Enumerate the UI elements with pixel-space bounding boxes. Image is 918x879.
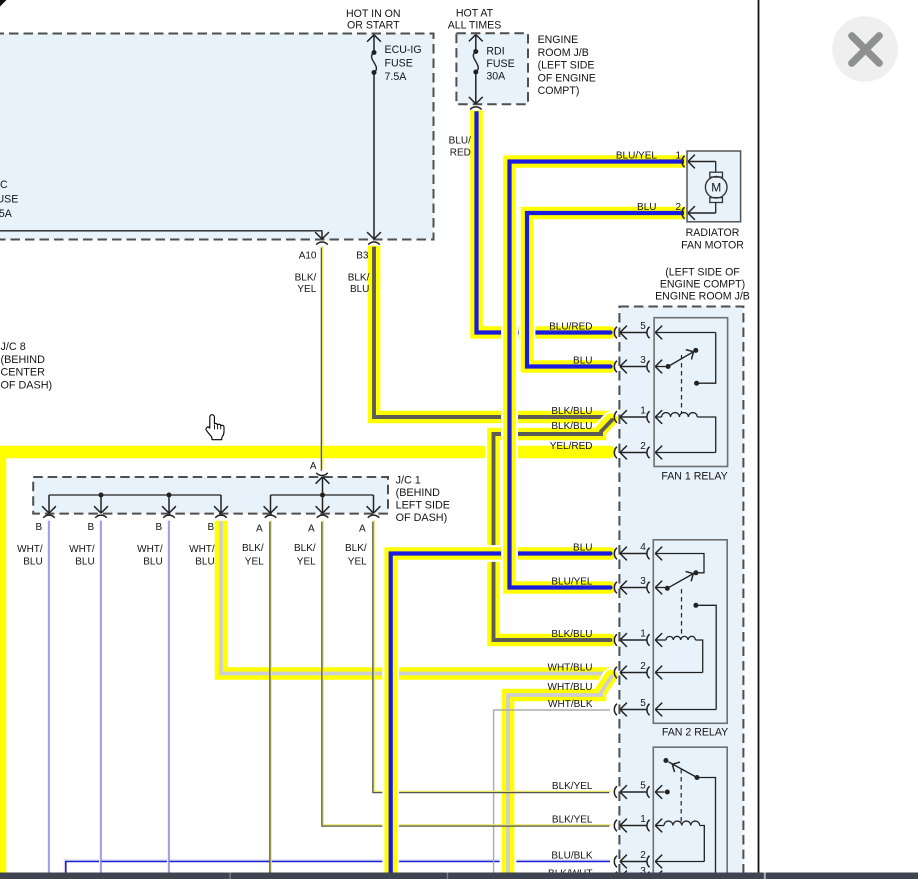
svg-text:B: B (208, 522, 215, 533)
svg-text:J/C 1: J/C 1 (396, 474, 421, 486)
svg-text:WHT/BLU: WHT/BLU (548, 682, 593, 693)
svg-text:FUSE: FUSE (0, 194, 18, 206)
svg-text:WHT/: WHT/ (189, 544, 215, 555)
svg-text:ENGINE COMPT): ENGINE COMPT) (660, 279, 745, 291)
svg-text:OF ENGINE: OF ENGINE (538, 72, 596, 84)
svg-text:(BEHIND: (BEHIND (1, 354, 46, 366)
svg-text:B: B (156, 522, 163, 533)
svg-text:BLU: BLU (573, 542, 592, 553)
svg-text:J/C 8: J/C 8 (1, 341, 26, 353)
svg-text:YEL: YEL (297, 284, 316, 295)
svg-text:OF DASH): OF DASH) (1, 379, 53, 391)
svg-text:7.5A: 7.5A (0, 208, 13, 220)
svg-text:A10: A10 (299, 251, 317, 262)
svg-text:(LEFT SIDE: (LEFT SIDE (538, 60, 595, 72)
svg-text:3: 3 (640, 355, 646, 366)
svg-text:5: 5 (640, 781, 646, 792)
svg-text:2: 2 (640, 661, 646, 672)
svg-text:1: 1 (640, 814, 646, 825)
svg-text:YEL: YEL (297, 557, 316, 568)
svg-text:YEL: YEL (245, 557, 264, 568)
svg-text:BLU/YEL: BLU/YEL (551, 576, 593, 587)
svg-text:BLU: BLU (75, 557, 94, 568)
svg-text:1: 1 (640, 629, 646, 640)
svg-text:WHT/BLK: WHT/BLK (548, 699, 593, 710)
svg-text:B: B (36, 522, 43, 533)
svg-text:BLU: BLU (143, 557, 162, 568)
svg-text:FUSE: FUSE (385, 58, 413, 70)
svg-text:BLU/: BLU/ (449, 135, 471, 146)
svg-text:WHT/BLU: WHT/BLU (548, 662, 593, 673)
svg-text:BLK/: BLK/ (295, 273, 317, 284)
svg-text:FAN 1 RELAY: FAN 1 RELAY (661, 471, 727, 483)
svg-text:BLU/BLK: BLU/BLK (551, 850, 592, 861)
svg-text:BLK/YEL: BLK/YEL (552, 814, 593, 825)
svg-text:2: 2 (640, 850, 646, 861)
svg-text:A: A (359, 524, 366, 535)
svg-text:BLK/BLU: BLK/BLU (551, 421, 592, 432)
svg-text:LEFT SIDE: LEFT SIDE (396, 499, 450, 511)
svg-text:YEL/RED: YEL/RED (550, 441, 593, 452)
svg-text:A/C: A/C (0, 179, 8, 191)
svg-text:BLK/YEL: BLK/YEL (552, 781, 593, 792)
svg-text:BLU: BLU (350, 284, 369, 295)
svg-text:B3: B3 (356, 251, 369, 262)
svg-text:BLU: BLU (195, 557, 214, 568)
svg-text:WHT/: WHT/ (69, 544, 95, 555)
svg-text:FAN MOTOR: FAN MOTOR (681, 240, 744, 252)
svg-text:A: A (256, 524, 263, 535)
svg-text:BLK/BLU: BLK/BLU (551, 629, 592, 640)
svg-text:3: 3 (640, 576, 646, 587)
svg-text:ROOM J/B: ROOM J/B (538, 47, 589, 59)
svg-text:BLK/BLU: BLK/BLU (551, 406, 592, 417)
svg-text:BLU/RED: BLU/RED (549, 321, 592, 332)
svg-text:CENTER: CENTER (1, 367, 46, 379)
svg-text:FUSE: FUSE (486, 58, 514, 70)
svg-text:ENGINE: ENGINE (538, 34, 579, 46)
svg-text:(BEHIND: (BEHIND (396, 487, 441, 499)
svg-text:ALL TIMES: ALL TIMES (448, 20, 502, 32)
svg-text:1: 1 (640, 406, 646, 417)
svg-text:BLK/: BLK/ (348, 273, 370, 284)
svg-text:A: A (310, 461, 317, 472)
svg-text:BLU: BLU (637, 202, 656, 213)
svg-text:HOT IN ON: HOT IN ON (346, 8, 401, 20)
svg-text:5: 5 (640, 698, 646, 709)
svg-text:RED: RED (450, 148, 471, 159)
svg-text:COMPT): COMPT) (538, 85, 580, 97)
svg-text:30A: 30A (486, 70, 506, 82)
svg-text:4: 4 (640, 542, 646, 553)
svg-text:BLU: BLU (23, 557, 42, 568)
svg-text:5: 5 (640, 321, 646, 332)
svg-text:OF DASH): OF DASH) (396, 512, 448, 524)
svg-text:WHT/: WHT/ (17, 544, 43, 555)
svg-text:(LEFT SIDE OF: (LEFT SIDE OF (665, 267, 740, 279)
svg-text:BLK/: BLK/ (345, 543, 367, 554)
svg-text:RADIATOR: RADIATOR (686, 227, 740, 239)
svg-text:ECU-IG: ECU-IG (385, 44, 422, 56)
svg-text:BLK/: BLK/ (294, 543, 316, 554)
svg-text:BLU: BLU (573, 355, 592, 366)
svg-text:A: A (308, 524, 315, 535)
svg-text:BLU/YEL: BLU/YEL (616, 150, 658, 161)
svg-text:YEL: YEL (348, 557, 367, 568)
svg-text:RDI: RDI (486, 46, 504, 58)
svg-text:1: 1 (675, 150, 681, 161)
svg-text:BLK/: BLK/ (242, 543, 264, 554)
svg-text:HOT AT: HOT AT (456, 7, 494, 19)
svg-text:M: M (711, 181, 721, 195)
svg-text:2: 2 (640, 441, 646, 452)
svg-text:7.5A: 7.5A (385, 71, 408, 83)
svg-text:ENGINE ROOM J/B: ENGINE ROOM J/B (655, 290, 750, 302)
svg-text:B: B (88, 522, 95, 533)
svg-text:2: 2 (675, 202, 681, 213)
svg-text:FAN 2 RELAY: FAN 2 RELAY (662, 727, 728, 739)
svg-text:OR START: OR START (347, 20, 400, 32)
svg-text:WHT/: WHT/ (137, 544, 163, 555)
